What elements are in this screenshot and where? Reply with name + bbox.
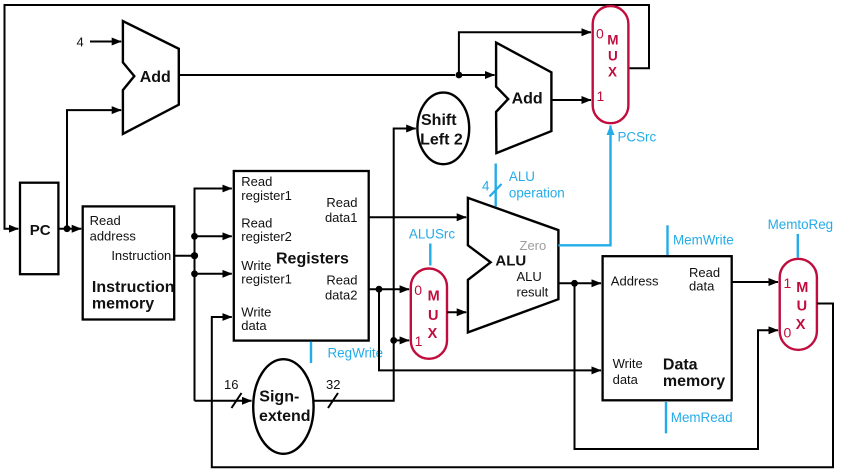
svg-text:0: 0 [784,325,792,341]
ellipse Shift left 2 [417,93,469,165]
alu ALU [468,198,559,333]
wire Read data2 to ALUSrc MUX and Data memory write data [369,286,601,371]
label ALU operation (4) [482,164,565,207]
svg-text:MemRead: MemRead [671,410,733,425]
wire Sign-extend output (32) to Shift left 2 and ALUSrc MUX [314,129,416,409]
svg-text:Write: Write [613,356,643,371]
svg-text:1: 1 [597,88,605,104]
wire to Write register [191,270,232,277]
svg-text:register1: register1 [241,272,292,287]
svg-text:Read: Read [326,195,357,210]
mux MemtoReg MUX [780,259,817,350]
wire PC feedback loop (MUX PCSrc output to PC input) [5,5,650,229]
svg-text:result: result [517,285,549,300]
svg-text:Address: Address [611,274,659,289]
svg-text:Zero: Zero [520,238,547,253]
svg-text:Add: Add [140,69,171,86]
svg-text:MemtoReg: MemtoReg [768,217,834,232]
svg-text:data1: data1 [325,210,358,225]
svg-text:X: X [428,326,438,342]
svg-text:register1: register1 [241,188,292,203]
svg-text:U: U [608,49,618,64]
svg-text:U: U [428,308,438,324]
svg-text:Sign-: Sign- [259,389,299,406]
svg-text:data: data [241,318,267,333]
wire PC to Instruction memory [58,225,81,232]
svg-text:extend: extend [259,408,311,425]
wire Read data to MemtoReg MUX 1 [732,281,778,283]
svg-text:0: 0 [414,282,422,298]
svg-text:M: M [607,33,618,48]
wire ALU result to Data memory and MemtoReg MUX 0 [558,280,778,449]
svg-text:Shift: Shift [421,112,457,129]
svg-text:Data: Data [663,356,698,373]
ellipse Sign-extend [253,359,313,454]
svg-text:16: 16 [224,377,238,392]
svg-text:4: 4 [482,179,490,194]
svg-text:ALU: ALU [495,253,526,270]
svg-text:RegWrite: RegWrite [328,346,384,361]
svg-text:MemWrite: MemWrite [673,233,734,248]
svg-text:Read: Read [90,213,121,228]
instruction memory [83,206,175,319]
svg-text:Left 2: Left 2 [420,132,463,149]
svg-text:operation: operation [509,186,565,201]
svg-text:ALU: ALU [509,169,535,184]
registers file [234,171,369,341]
wire Read data1 to ALU [369,216,467,218]
wire branch Add output to MUX input 1 [552,99,591,101]
svg-text:PCSrc: PCSrc [618,130,657,145]
data memory [603,256,732,400]
svg-text:1: 1 [784,275,792,291]
adder Add (branch target) [496,43,551,154]
svg-text:Instruction: Instruction [111,248,171,263]
svg-text:M: M [796,280,808,296]
wire to Read register2 [191,233,232,240]
svg-text:1: 1 [415,333,423,349]
svg-text:Add: Add [512,91,543,108]
svg-text:M: M [428,289,440,305]
wire instruction bus [174,189,232,401]
wire PC to Add (PC+4) [67,110,121,229]
svg-text:register2: register2 [241,229,292,244]
label RegWrite [311,342,383,364]
wire 4 to Add [90,41,121,43]
svg-text:data: data [689,279,715,294]
wire to Sign-extend with width 16 [195,377,252,408]
svg-text:memory: memory [663,373,725,390]
svg-text:PC: PC [30,222,51,239]
svg-text:4: 4 [77,35,84,50]
svg-text:ALUSrc: ALUSrc [409,226,455,241]
label MemRead [666,402,733,433]
svg-text:data2: data2 [325,288,358,303]
label MemtoReg [768,217,834,258]
svg-text:Read: Read [326,273,357,288]
wire ALUSrc MUX output to ALU [447,311,466,313]
svg-text:32: 32 [326,377,340,392]
svg-text:memory: memory [92,296,154,313]
svg-text:Read: Read [241,174,272,189]
svg-text:ALU: ALU [517,269,542,284]
PC register [20,183,58,275]
adder Add (PC+4) [123,21,179,134]
svg-text:U: U [797,299,807,315]
wire Add output to branch Add and MUX [179,32,591,78]
wire MemtoReg MUX output to Registers Write data [212,304,833,468]
svg-text:address: address [90,229,137,244]
svg-text:X: X [796,317,806,333]
svg-text:Instruction: Instruction [92,279,175,296]
label MemWrite [668,225,734,255]
label ALUSrc [409,226,455,265]
svg-text:Registers: Registers [276,251,349,268]
mux PCSrc MUX [593,6,629,123]
svg-text:data: data [613,372,639,387]
wire Zero to PCSrc MUX (control) [558,126,610,246]
mux ALUSrc MUX [411,269,447,359]
svg-text:X: X [608,65,617,80]
svg-text:0: 0 [596,26,604,42]
